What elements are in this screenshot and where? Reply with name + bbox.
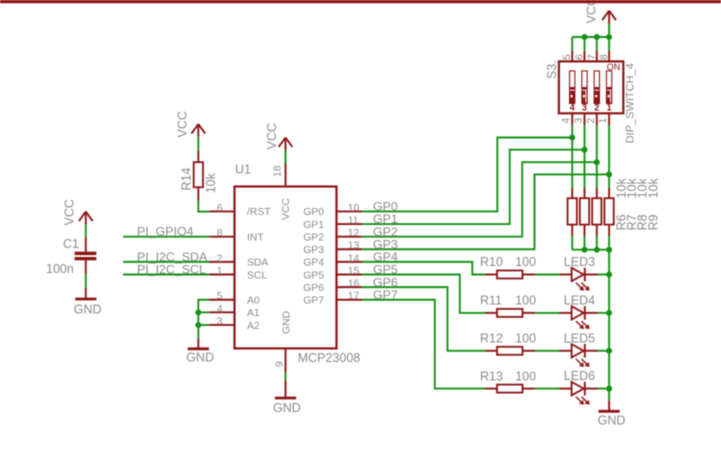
svg-text:4: 4: [217, 304, 223, 315]
svg-text:5: 5: [562, 54, 573, 60]
svg-text:VCC: VCC: [585, 0, 599, 23]
svg-text:9: 9: [275, 361, 286, 367]
svg-text:R9: R9: [647, 214, 661, 230]
svg-text:4: 4: [561, 118, 572, 124]
svg-text:VCC: VCC: [281, 198, 292, 220]
svg-text:10k: 10k: [204, 172, 218, 193]
svg-text:3: 3: [582, 102, 587, 112]
svg-text:16: 16: [348, 279, 360, 290]
svg-text:100: 100: [515, 369, 536, 383]
svg-text:U1: U1: [235, 163, 251, 177]
svg-text:R10: R10: [480, 255, 503, 269]
svg-text:1: 1: [598, 118, 609, 124]
svg-text:10k: 10k: [647, 177, 661, 198]
svg-text:GND: GND: [281, 311, 292, 334]
svg-text:MCP23008: MCP23008: [298, 351, 361, 365]
svg-text:/RST: /RST: [247, 207, 271, 218]
svg-text:R14: R14: [179, 168, 193, 191]
svg-text:6: 6: [217, 203, 223, 214]
svg-text:4: 4: [570, 102, 575, 112]
svg-text:GP3: GP3: [303, 245, 324, 256]
svg-text:17: 17: [348, 291, 360, 302]
svg-text:GP4: GP4: [303, 258, 324, 269]
svg-text:6: 6: [575, 54, 586, 60]
svg-text:PI_GPIO4: PI_GPIO4: [137, 225, 194, 239]
svg-text:GND: GND: [273, 401, 301, 415]
svg-text:1: 1: [217, 266, 223, 277]
svg-text:R13: R13: [480, 369, 503, 383]
svg-text:3: 3: [574, 118, 585, 124]
svg-text:LED4: LED4: [564, 294, 595, 308]
svg-text:10: 10: [348, 203, 360, 214]
svg-text:11: 11: [348, 215, 359, 226]
svg-text:2: 2: [594, 102, 599, 112]
svg-text:2: 2: [586, 118, 597, 124]
svg-text:GP1: GP1: [303, 220, 324, 231]
svg-text:7: 7: [587, 54, 598, 60]
svg-text:LED5: LED5: [564, 331, 595, 345]
svg-text:GP2: GP2: [303, 232, 324, 243]
svg-text:GND: GND: [74, 303, 102, 317]
svg-text:100: 100: [515, 255, 536, 269]
svg-text:GP7: GP7: [373, 288, 398, 302]
svg-text:GND: GND: [598, 414, 626, 428]
svg-text:ON: ON: [607, 62, 621, 72]
svg-text:100: 100: [515, 332, 536, 346]
svg-text:R12: R12: [480, 332, 503, 346]
svg-text:100: 100: [515, 294, 536, 308]
svg-text:A2: A2: [247, 321, 260, 332]
svg-text:SDA: SDA: [247, 258, 268, 269]
svg-text:12: 12: [348, 228, 360, 239]
svg-text:1: 1: [607, 102, 612, 112]
svg-text:LED3: LED3: [564, 255, 595, 269]
svg-text:SCL: SCL: [247, 270, 267, 281]
svg-text:S3.: S3.: [545, 60, 559, 79]
svg-text:C1: C1: [63, 237, 79, 251]
svg-text:DIP_SWITCH_4: DIP_SWITCH_4: [625, 63, 637, 143]
svg-text:VCC: VCC: [176, 111, 190, 137]
svg-text:15: 15: [348, 266, 360, 277]
svg-text:14: 14: [348, 253, 360, 264]
svg-text:5: 5: [217, 291, 223, 302]
svg-text:R11: R11: [480, 294, 502, 308]
svg-text:3: 3: [217, 316, 223, 327]
svg-text:GND: GND: [186, 351, 214, 365]
svg-text:PI_I2C_SCL: PI_I2C_SCL: [137, 263, 206, 277]
svg-text:2: 2: [217, 253, 223, 264]
svg-text:100n: 100n: [46, 262, 74, 276]
svg-text:GP5: GP5: [303, 270, 324, 281]
svg-text:A0: A0: [247, 296, 260, 307]
svg-text:GP6: GP6: [303, 283, 324, 294]
svg-text:A1: A1: [247, 308, 260, 319]
svg-text:8: 8: [599, 54, 610, 60]
svg-text:GP7: GP7: [303, 296, 324, 307]
svg-text:13: 13: [348, 241, 360, 252]
svg-text:INT: INT: [247, 232, 264, 243]
svg-text:GP0: GP0: [303, 207, 324, 218]
svg-text:18: 18: [273, 165, 284, 177]
svg-text:VCC: VCC: [63, 199, 77, 225]
svg-text:8: 8: [217, 228, 223, 239]
svg-text:VCC: VCC: [265, 123, 279, 149]
svg-text:LED6: LED6: [564, 369, 595, 383]
